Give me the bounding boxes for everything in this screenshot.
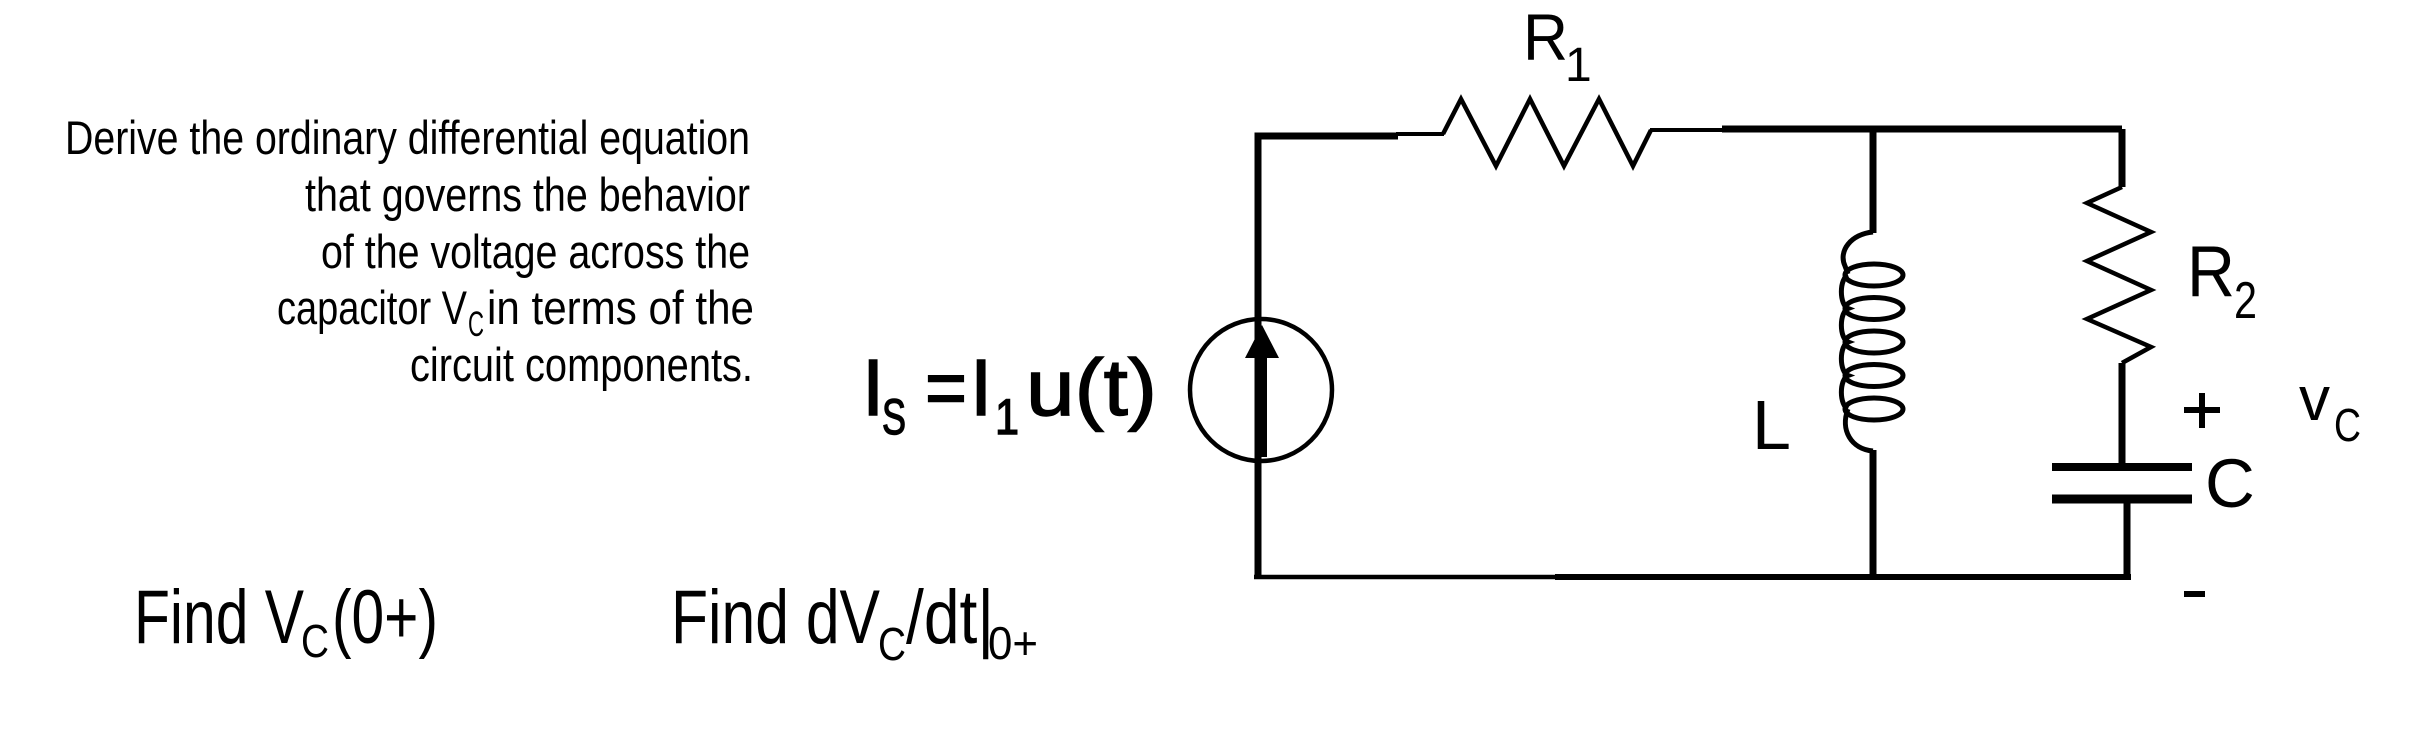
svg-text:C: C (2334, 399, 2361, 451)
svg-text:1: 1 (1565, 39, 1592, 92)
svg-text:Find V: Find V (134, 575, 304, 660)
svg-text:Find dV: Find dV (671, 575, 880, 660)
svg-text:C: C (878, 618, 906, 670)
svg-text:S: S (882, 389, 906, 445)
svg-text:0+: 0+ (988, 617, 1038, 669)
svg-text:/dt|: /dt| (906, 575, 994, 660)
svg-text:I: I (862, 343, 884, 432)
svg-text:C: C (301, 615, 329, 667)
svg-text:=: = (925, 343, 967, 432)
svg-text:capacitor V: capacitor V (277, 281, 468, 334)
svg-text:R: R (1523, 0, 1568, 74)
svg-text:1: 1 (995, 389, 1019, 445)
svg-text:L: L (1752, 386, 1791, 464)
svg-text:of the voltage across the: of the voltage across the (321, 225, 750, 278)
svg-text:u(t): u(t) (1026, 343, 1157, 432)
svg-text:I: I (970, 343, 992, 432)
svg-text:R: R (2187, 232, 2235, 312)
svg-text:2: 2 (2234, 272, 2257, 330)
svg-text:(0+): (0+) (332, 575, 438, 660)
svg-text:v: v (2299, 365, 2330, 434)
svg-text:in terms of the: in terms of the (487, 281, 754, 334)
svg-text:that governs the behavior: that governs the behavior (305, 168, 750, 221)
svg-text:circuit components.: circuit components. (410, 338, 753, 391)
svg-text:Derive the ordinary differenti: Derive the ordinary differential equatio… (65, 111, 750, 164)
svg-text:C: C (2205, 445, 2255, 522)
